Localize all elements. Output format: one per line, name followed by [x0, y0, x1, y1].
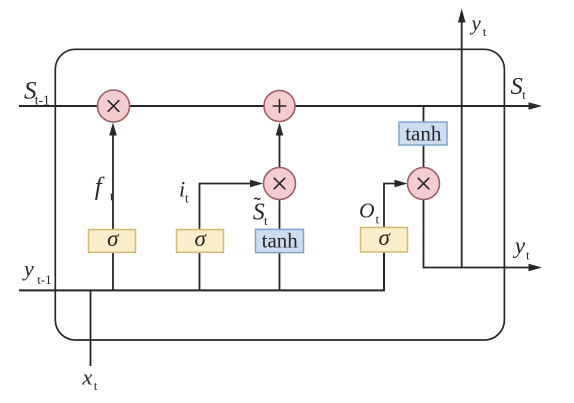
- svg-text:O: O: [359, 199, 375, 223]
- svg-text:t: t: [483, 24, 487, 39]
- svg-text:S: S: [253, 200, 265, 226]
- svg-text:t: t: [522, 87, 526, 102]
- svg-text:y: y: [513, 233, 526, 259]
- svg-text:t: t: [94, 378, 98, 393]
- svg-text:y: y: [470, 11, 482, 35]
- svg-text:σ: σ: [379, 225, 392, 250]
- svg-text:σ: σ: [107, 226, 120, 251]
- svg-text:tanh: tanh: [262, 229, 299, 253]
- svg-text:tanh: tanh: [405, 122, 442, 146]
- svg-text:x: x: [82, 365, 93, 390]
- svg-text:t-1: t-1: [35, 93, 50, 108]
- svg-text:t: t: [264, 213, 268, 228]
- svg-text:t: t: [526, 248, 530, 263]
- svg-text:t: t: [185, 191, 189, 206]
- svg-text:t-1: t-1: [37, 272, 51, 287]
- svg-text:t: t: [110, 189, 114, 204]
- svg-text:S: S: [511, 73, 523, 100]
- svg-text:σ: σ: [195, 226, 208, 251]
- svg-text:y: y: [22, 256, 34, 281]
